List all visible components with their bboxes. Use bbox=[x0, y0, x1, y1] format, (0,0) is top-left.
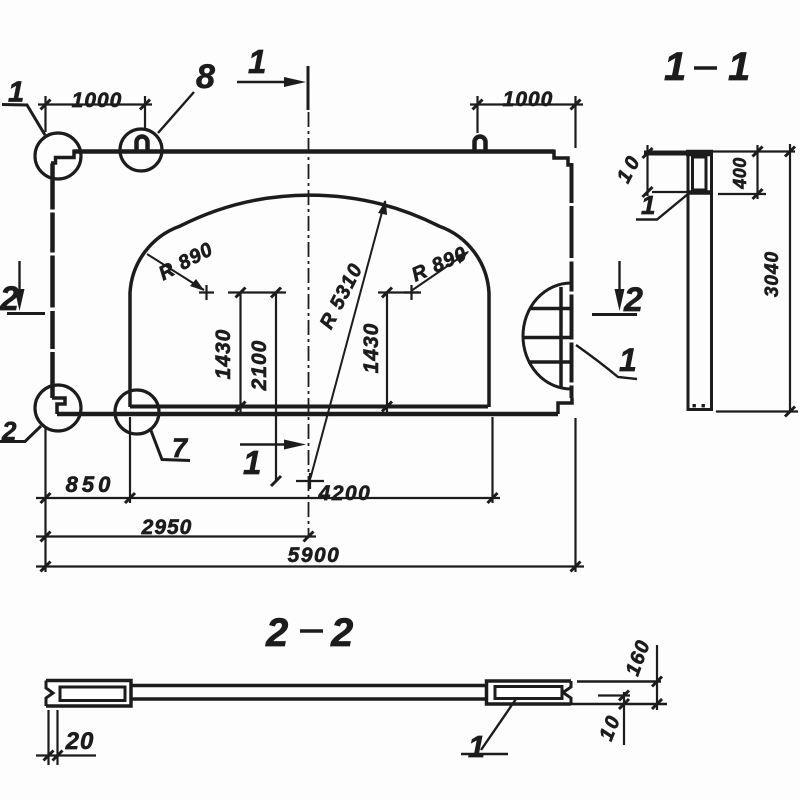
svg-text:R 890: R 890 bbox=[408, 243, 470, 287]
2-2 dim 160: ticks bbox=[652, 677, 662, 710]
dim line 1430 right (vertical) bbox=[386, 293, 388, 415]
dim 1000 top-right: extension lines bbox=[478, 96, 576, 148]
svg-text:7: 7 bbox=[172, 433, 189, 463]
svg-text:2: 2 bbox=[265, 611, 288, 655]
dim row 2950: line bbox=[36, 535, 316, 537]
radius R890 left: leader with arrowhead at fillet centre bbox=[147, 254, 205, 291]
leader and label 1 (top-left detail) bbox=[2, 105, 45, 136]
2-2 thin web bottom line bbox=[130, 697, 487, 700]
detail circle 7 (bottom of opening) bbox=[115, 390, 159, 434]
2-2 dim 20: dim line bbox=[36, 754, 96, 756]
1-1 dim 10: ticks bbox=[643, 148, 653, 197]
svg-text:1430: 1430 bbox=[212, 329, 235, 380]
svg-text:2: 2 bbox=[1, 416, 17, 446]
1-1 embedded item rect bbox=[693, 157, 707, 190]
detail circle 2 (bottom-left corner) bbox=[35, 385, 81, 431]
1-1 bottom cap bbox=[687, 408, 714, 411]
2-2 dim 160: dim line bbox=[656, 645, 658, 710]
left fillet centre cross bbox=[199, 285, 214, 300]
panel top-right corner step bbox=[554, 150, 572, 166]
1-1 dim 10: lower ext bbox=[652, 191, 688, 193]
panel right edge bbox=[570, 163, 574, 398]
section marker 1 bottom: arrow line bbox=[240, 440, 306, 450]
1-1 dim 400: dim line bbox=[756, 145, 758, 199]
1-1 member right face bbox=[710, 150, 713, 410]
1-1 dim 3040: bottom ext bbox=[716, 410, 798, 412]
1-1 member left face bbox=[687, 150, 690, 410]
dim row 5900: line bbox=[36, 565, 584, 567]
svg-text:1: 1 bbox=[248, 43, 266, 80]
panel bottom-left corner step bbox=[52, 398, 65, 414]
leader and label 8 (loop detail) bbox=[158, 92, 194, 133]
leader and label 7 (sill detail) bbox=[150, 428, 190, 461]
embedded anchor bulge on right edge bbox=[523, 283, 571, 389]
svg-text:400: 400 bbox=[730, 157, 750, 190]
panel bottom-right corner step bbox=[558, 398, 572, 414]
ticks at bottom ends bbox=[236, 402, 393, 487]
2-2 left block inner rect bbox=[60, 687, 125, 701]
detail circle 1 (top-left corner) bbox=[35, 133, 81, 179]
detail circle 8 (left lifting loop) bbox=[120, 129, 162, 171]
dim row 5900: ticks bbox=[41, 562, 581, 572]
svg-text:1: 1 bbox=[728, 45, 750, 89]
svg-text:2: 2 bbox=[623, 281, 643, 319]
1-1 leader and label 1 bbox=[636, 194, 688, 220]
dim line 1430 left (vertical) bbox=[239, 293, 241, 415]
2-2 dim 10: ext line bbox=[598, 694, 630, 696]
2-2 left block outline bbox=[46, 681, 131, 707]
svg-text:1: 1 bbox=[619, 342, 637, 378]
svg-text:1: 1 bbox=[641, 190, 655, 220]
2-2 right block outline bbox=[487, 681, 572, 704]
1-1 dim 10: dim line vertical bbox=[646, 145, 648, 196]
svg-text:10: 10 bbox=[595, 711, 625, 744]
radius R5310: leader with arrowhead at arc bbox=[311, 200, 388, 478]
2-2 right ext lines bbox=[571, 682, 667, 705]
svg-text:1: 1 bbox=[8, 77, 24, 109]
fillet-centre level line right bbox=[378, 291, 421, 293]
dim 1000 top-right: dimension line bbox=[470, 103, 583, 105]
panel top edge bbox=[74, 149, 554, 154]
section marker 2 right bbox=[592, 261, 637, 315]
1-1 dim 10: thick ext bar bbox=[644, 151, 686, 156]
panel bottom edge bbox=[57, 412, 558, 417]
svg-text:10: 10 bbox=[613, 150, 647, 187]
1-1 embed bottom thick line bbox=[689, 190, 711, 195]
2-2 right block break edge bbox=[563, 681, 571, 704]
dim 1000 top-right: ticks bbox=[473, 100, 581, 110]
svg-text:160: 160 bbox=[622, 637, 655, 679]
dim 1000 top-left: dimension line bbox=[38, 103, 152, 105]
svg-text:1000: 1000 bbox=[72, 89, 123, 112]
centerline (section 1-1 cut) bbox=[308, 112, 310, 536]
svg-text:1430: 1430 bbox=[360, 323, 383, 374]
radius R5310 centre cross bbox=[296, 473, 324, 489]
1-1 dim 3040: dim line bbox=[789, 144, 791, 412]
dim line 2100 (vertical) bbox=[275, 293, 277, 482]
svg-text:4200: 4200 bbox=[318, 482, 372, 505]
leader and label 1 (right edge embed) bbox=[576, 345, 637, 379]
2-2 dim 10: dim line bbox=[623, 692, 625, 745]
right fillet centre cross bbox=[404, 285, 419, 300]
svg-text:2100: 2100 bbox=[248, 340, 271, 392]
ticks at fillet level bbox=[236, 288, 393, 298]
svg-text:2: 2 bbox=[0, 280, 19, 318]
svg-text:2: 2 bbox=[330, 611, 353, 655]
svg-text:1: 1 bbox=[664, 45, 686, 89]
svg-text:850: 850 bbox=[66, 472, 115, 497]
fillet-centre level line left bbox=[228, 291, 286, 293]
opening sill line bbox=[130, 405, 488, 409]
2-2 dim 20: ext verticals bbox=[49, 710, 58, 765]
2-2 dim 20: ticks bbox=[44, 751, 63, 761]
svg-text:3040: 3040 bbox=[762, 251, 783, 297]
svg-text:1000: 1000 bbox=[503, 88, 554, 111]
section marker 1 top: arrow line bbox=[237, 66, 308, 110]
svg-text:2950: 2950 bbox=[141, 516, 193, 539]
2-2 leader and label 1 bbox=[461, 699, 516, 754]
1-1 dim 3040: ticks bbox=[785, 147, 795, 417]
lifting loop right bbox=[475, 137, 486, 152]
dim 1000 top-left: extension lines bbox=[46, 96, 146, 132]
1-1 dim 400: ticks bbox=[753, 147, 763, 200]
panel left edge bbox=[50, 163, 55, 398]
radius R890 right: leader with arrowhead at arc bbox=[411, 251, 469, 291]
dim 1000 top-left: ticks bbox=[41, 100, 151, 110]
dim row 850 / 4200: line bbox=[36, 497, 500, 499]
svg-text:5900: 5900 bbox=[288, 544, 341, 567]
svg-text:8: 8 bbox=[196, 58, 215, 96]
2-2 dim 10: ticks bbox=[619, 691, 629, 710]
svg-text:20: 20 bbox=[65, 728, 95, 755]
arch opening outline bbox=[130, 195, 489, 407]
dim row 2950: ticks bbox=[41, 532, 314, 542]
1-1 dim 400: ext lines bbox=[713, 152, 795, 195]
svg-text:1: 1 bbox=[243, 444, 261, 481]
1-1 top cap (thick) bbox=[686, 150, 713, 157]
section marker 2 left bbox=[7, 261, 45, 314]
dim row 850 / 4200: ticks bbox=[41, 493, 498, 503]
panel top-left corner step bbox=[51, 150, 74, 164]
bottom dims: extension lines bbox=[46, 417, 576, 572]
leader and label 2 (bottom-left detail) bbox=[0, 426, 41, 442]
svg-text:1: 1 bbox=[468, 729, 485, 764]
2-2 left block break edge bbox=[46, 681, 53, 707]
2-2 thin web top line bbox=[130, 684, 487, 687]
lifting loop left bbox=[137, 137, 148, 152]
1-1 bottom dots bbox=[693, 404, 696, 407]
2-2 right block inner rect bbox=[495, 687, 562, 699]
